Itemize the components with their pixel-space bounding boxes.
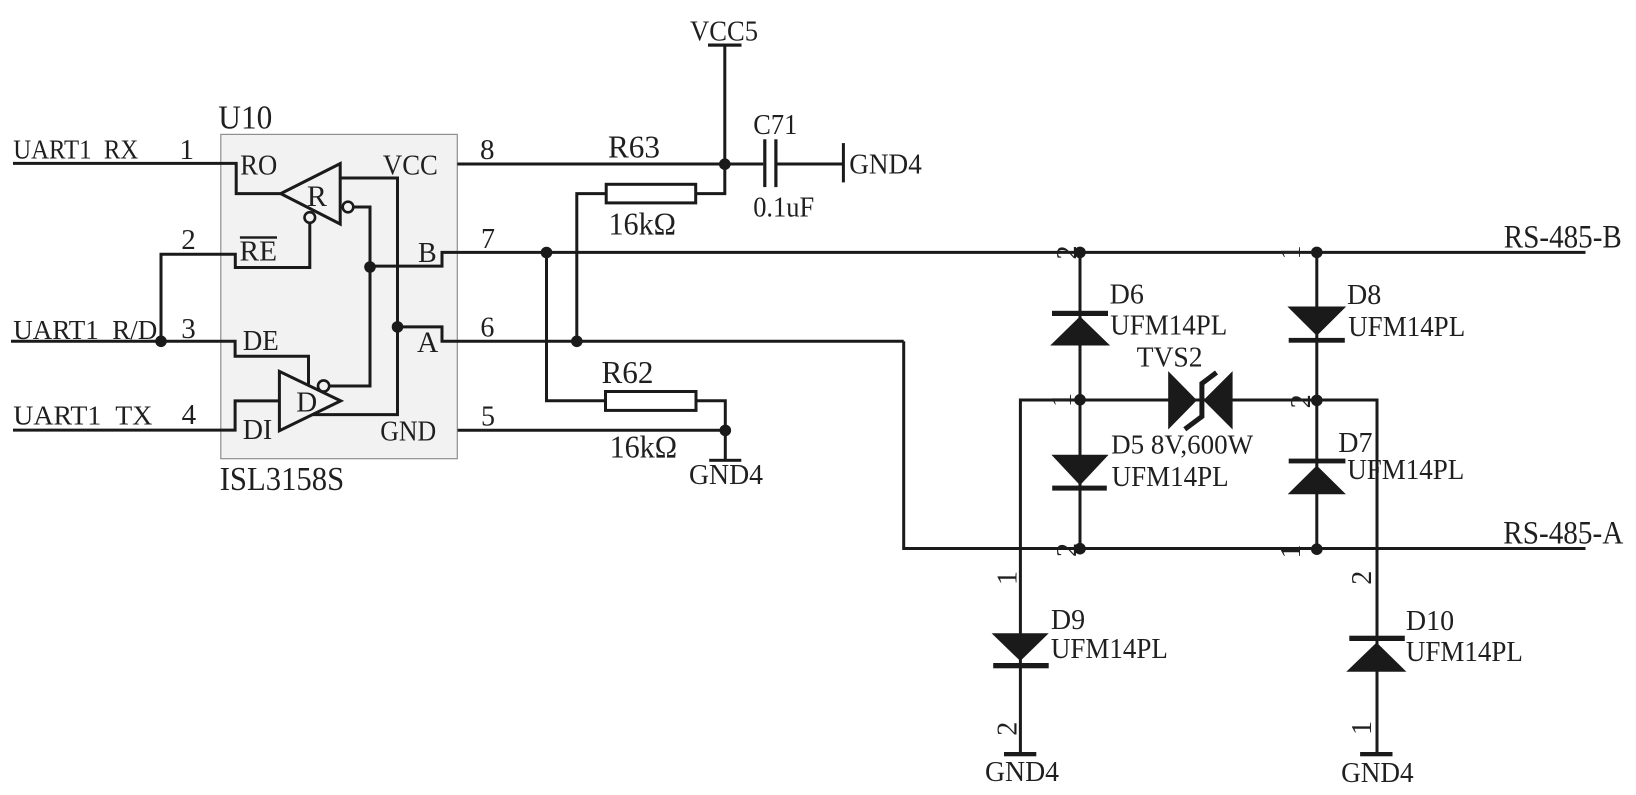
svg-text:ISL3158S: ISL3158S: [220, 461, 345, 498]
svg-text:8: 8: [480, 134, 495, 166]
svg-text:D6: D6: [1110, 279, 1144, 310]
svg-text:GND4: GND4: [849, 150, 922, 181]
svg-text:1: 1: [1276, 545, 1307, 559]
svg-text:GND: GND: [380, 416, 436, 447]
svg-text:D: D: [296, 387, 317, 419]
svg-text:DI: DI: [243, 415, 273, 446]
svg-text:GND4: GND4: [689, 460, 763, 491]
svg-text:7: 7: [481, 224, 495, 255]
svg-text:R: R: [307, 180, 327, 213]
svg-text:U10: U10: [218, 99, 272, 136]
svg-text:D8: D8: [1347, 280, 1381, 311]
svg-text:GND4: GND4: [1341, 758, 1414, 789]
svg-text:GND4: GND4: [985, 757, 1059, 788]
svg-text:1: 1: [1347, 721, 1378, 735]
svg-text:5: 5: [481, 402, 495, 433]
svg-text:1: 1: [1276, 246, 1307, 260]
svg-text:1: 1: [1047, 393, 1078, 407]
svg-text:UART1 TX: UART1 TX: [13, 400, 152, 431]
svg-text:1: 1: [992, 571, 1023, 585]
svg-text:VCC5: VCC5: [690, 16, 758, 47]
svg-text:16kΩ: 16kΩ: [609, 206, 677, 242]
svg-text:UFM14PL: UFM14PL: [1348, 311, 1465, 343]
svg-text:UART1 RX: UART1 RX: [13, 134, 138, 165]
svg-text:2: 2: [181, 224, 196, 256]
svg-text:3: 3: [181, 313, 196, 345]
svg-text:6: 6: [480, 313, 494, 344]
svg-text:UART1 R/D: UART1 R/D: [13, 314, 157, 345]
svg-text:UFM14PL: UFM14PL: [1051, 633, 1168, 665]
svg-text:R62: R62: [602, 354, 654, 390]
svg-text:16kΩ: 16kΩ: [610, 428, 678, 464]
svg-text:RS-485-B: RS-485-B: [1504, 219, 1622, 255]
svg-text:B: B: [418, 238, 437, 269]
svg-text:UFM14PL: UFM14PL: [1112, 461, 1229, 493]
svg-text:D5 8V,600W: D5 8V,600W: [1111, 429, 1254, 459]
svg-text:UFM14PL: UFM14PL: [1347, 454, 1464, 486]
svg-text:VCC: VCC: [383, 150, 438, 181]
svg-text:0.1uF: 0.1uF: [753, 193, 814, 224]
svg-text:4: 4: [182, 399, 197, 431]
svg-text:D10: D10: [1406, 606, 1454, 637]
svg-text:2: 2: [992, 722, 1023, 736]
svg-text:RE: RE: [240, 236, 278, 267]
svg-text:TVS2: TVS2: [1137, 341, 1203, 373]
svg-text:RS-485-A: RS-485-A: [1503, 516, 1623, 552]
svg-text:DE: DE: [243, 326, 279, 357]
svg-text:UFM14PL: UFM14PL: [1110, 309, 1227, 341]
svg-text:R63: R63: [608, 129, 660, 165]
svg-text:D9: D9: [1051, 605, 1085, 636]
svg-text:A: A: [417, 327, 439, 359]
svg-text:UFM14PL: UFM14PL: [1406, 636, 1523, 668]
svg-text:C71: C71: [753, 110, 797, 141]
svg-text:RO: RO: [240, 150, 277, 181]
svg-text:2: 2: [1347, 571, 1378, 585]
svg-text:1: 1: [180, 134, 195, 166]
